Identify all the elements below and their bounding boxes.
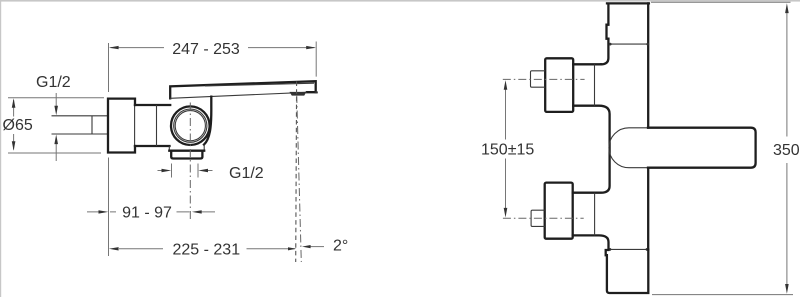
svg-text:2°: 2° bbox=[333, 237, 348, 254]
svg-text:150±15: 150±15 bbox=[481, 142, 534, 159]
body right edge lower bbox=[647, 168, 649, 250]
valve cartridge inner circle bbox=[175, 111, 205, 141]
svg-text:G1/2: G1/2 bbox=[229, 165, 264, 182]
base block bbox=[606, 250, 649, 293]
valve cartridge outer circle bbox=[171, 106, 210, 145]
outlet nut bbox=[171, 151, 202, 159]
valve housing right profile bbox=[204, 97, 211, 145]
svg-text:G1/2: G1/2 bbox=[36, 74, 71, 91]
mixer body bottom edge bbox=[135, 145, 170, 147]
spout boss cap (front view, rounded left end) bbox=[609, 128, 648, 168]
2 degree leader bbox=[309, 246, 324, 248]
outlet collar bottom edge bbox=[169, 150, 204, 152]
body internal joint line bbox=[156, 105, 158, 146]
spout outline bbox=[170, 81, 316, 98]
inlet stub (G1/2 wall connection) bbox=[52, 116, 109, 134]
spout underside line bbox=[170, 92, 307, 98]
bottom step joint line bbox=[610, 248, 648, 250]
body right edge upper bbox=[647, 3, 649, 127]
vertical dashed stream reference line bbox=[295, 82, 298, 263]
bottom inlet pipe back line bbox=[594, 193, 596, 236]
top inlet stub bbox=[531, 71, 546, 87]
valve cartridge middle circle bbox=[174, 109, 207, 142]
outlet collar bbox=[169, 145, 204, 151]
bottom inlet escutcheon bbox=[545, 183, 573, 239]
dimension 247-253 bbox=[109, 42, 317, 93]
svg-text:350: 350 bbox=[773, 142, 800, 159]
body top section bbox=[601, 3, 649, 64]
bottom inlet pipe bbox=[573, 235, 609, 249]
bottom inlet centerline bbox=[503, 217, 584, 219]
G1/2 inlet arrows bbox=[55, 93, 57, 161]
left clip tab bbox=[607, 25, 609, 39]
aerator bump under tip bbox=[290, 92, 307, 96]
mixer body top edge bbox=[135, 104, 170, 106]
svg-text:Ø65: Ø65 bbox=[3, 117, 33, 134]
top inlet escutcheon bbox=[545, 58, 573, 112]
slanted 2-degree stream axis bbox=[297, 95, 302, 262]
spout bar (front view) bbox=[648, 128, 756, 168]
left gray border strip bbox=[0, 0, 1, 297]
dimension 91-97 bbox=[87, 158, 215, 217]
top inlet pipe bbox=[573, 64, 610, 192]
svg-text:225 - 231: 225 - 231 bbox=[172, 242, 240, 259]
dimension diameter 65 bbox=[8, 98, 104, 153]
dimension 350 bbox=[651, 2, 793, 294]
wall escutcheon block bbox=[108, 99, 135, 153]
dimension G1/2 (outlet thread) bbox=[158, 164, 213, 178]
top gray border strip bbox=[0, 0, 800, 2]
dimension 225-231 bbox=[109, 217, 295, 257]
svg-text:91 - 97: 91 - 97 bbox=[122, 205, 172, 222]
top inlet centerline bbox=[503, 78, 585, 80]
dimension 150 plus-minus 15 bbox=[505, 90, 507, 209]
bottom inlet stub bbox=[531, 210, 545, 226]
vertical centerline of outlet bbox=[189, 103, 191, 221]
top inlet pipe back line bbox=[594, 64, 596, 105]
spout top inner line bbox=[205, 83, 314, 86]
escutcheon rear edge (thin, behind body) bbox=[134, 105, 136, 146]
svg-text:247 - 253: 247 - 253 bbox=[172, 41, 240, 58]
top step joint line bbox=[610, 43, 648, 45]
spout tip foot bbox=[315, 91, 318, 93]
